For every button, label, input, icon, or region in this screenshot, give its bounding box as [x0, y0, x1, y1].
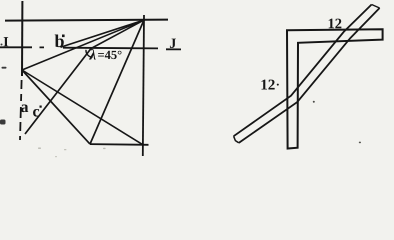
label J [170, 39, 176, 48]
label c prime dot [40, 106, 42, 108]
left figure: bottom horizontal line H3 [90, 143, 149, 146]
label a [21, 104, 28, 112]
left figure: fan line F1 from fan point to b [61, 20, 145, 47]
left figure: horizontal line I-J dashed left part [0, 46, 44, 48]
left figure: vertical line V1 dashed continuation [20, 80, 22, 140]
label 12 left beside vertical arm [262, 80, 275, 90]
right figure: L angle-bracket outline [287, 29, 383, 148]
left figure: diagonal D1 from K-vertex to bottom vertex [22, 70, 90, 144]
label 12 upper on horizontal arm [329, 19, 342, 29]
speck lower right of right figure [359, 142, 361, 144]
left figure: vertical line V2 through fan point [143, 15, 144, 156]
faint speckles along bottom of left figure [38, 148, 41, 149]
left figure: 45-degree line S1 from vertex down-left [25, 49, 91, 135]
label b [55, 35, 64, 48]
right figure: diagonal strip upper-left edge [234, 5, 372, 137]
left figure: top horizontal line H1 [5, 20, 168, 21]
right figure: diagonal strip top end cap [372, 5, 380, 9]
left figure: angle arc at 45-degree vertex [86, 50, 93, 57]
label equals 45 degrees [98, 51, 121, 59]
label c [33, 109, 39, 117]
left figure: diagonal D2 from fan point to bottom vertex [90, 20, 144, 144]
right figure: diagonal strip lower-right edge [239, 8, 380, 143]
label I [4, 37, 9, 46]
speck above right-figure vertical arm area [313, 101, 315, 103]
left figure: fan line F3 from fan point to K-vertex [22, 20, 144, 70]
label b prime dot [62, 35, 65, 38]
left figure: horizontal line I-J solid right part [63, 48, 181, 50]
right figure: diagonal strip bottom end cap [234, 136, 239, 143]
speck right of left 12 [277, 84, 279, 86]
left figure: vertical line V1 solid part [21, 1, 23, 76]
left margin artifact blob [0, 120, 6, 125]
left figure: fan line F2 from fan point to 45-degree vertex [91, 20, 144, 49]
label lambda [89, 49, 96, 60]
left figure: diagonal from K-vertex to bottom right corner [22, 70, 143, 145]
paper background [0, 0, 394, 162]
left margin small tick [2, 67, 7, 69]
speck left of label I [1, 44, 3, 46]
